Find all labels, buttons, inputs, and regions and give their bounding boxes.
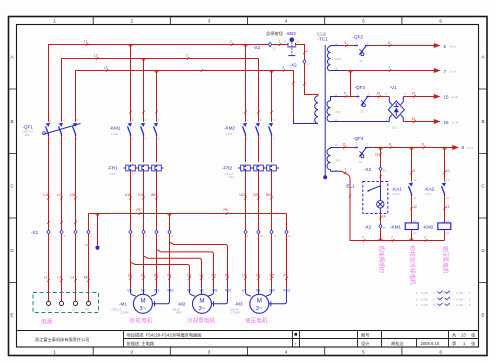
supply terminals box 电源 xyxy=(33,293,99,326)
svg-text:2-1-B: 2-1-B xyxy=(452,120,459,124)
label lighting branch xyxy=(378,246,386,274)
svg-text:B: B xyxy=(481,119,484,124)
svg-text:砂轮及冷却电机: 砂轮及冷却电机 xyxy=(409,246,417,286)
svg-text:L3: L3 xyxy=(71,275,75,279)
svg-text:L3: L3 xyxy=(72,307,75,311)
svg-text:9: 9 xyxy=(345,41,347,45)
svg-text:1-3-B: 1-3-B xyxy=(456,303,463,307)
svg-text:1-2-B: 1-2-B xyxy=(421,297,428,301)
svg-text:-KM2: -KM2 xyxy=(423,224,434,229)
svg-text:6: 6 xyxy=(439,350,442,355)
relay contact KA1 xyxy=(392,148,417,201)
wire lamp branch drop xyxy=(375,148,382,167)
svg-text:W3: W3 xyxy=(270,273,275,277)
svg-text:13: 13 xyxy=(413,178,416,182)
svg-text:2009.9.10: 2009.9.10 xyxy=(421,341,440,346)
svg-text:1-5-B: 1-5-B xyxy=(226,132,233,136)
svg-text:14: 14 xyxy=(446,196,449,200)
wire KM1 coil to bus 7 xyxy=(411,230,413,241)
svg-text:9: 9 xyxy=(413,169,415,173)
svg-text:L21: L21 xyxy=(57,193,63,197)
svg-text:21: 21 xyxy=(283,40,286,44)
secondary winding 220V xyxy=(327,46,330,71)
svg-text:2-1-B: 2-1-B xyxy=(452,95,459,99)
wire 36V return to control bus 7 xyxy=(331,167,445,242)
svg-text:U21: U21 xyxy=(240,193,246,197)
svg-text:L2: L2 xyxy=(94,54,98,58)
wire PE drop to X1-12 xyxy=(286,214,288,230)
svg-text:5A: 5A xyxy=(360,59,363,63)
svg-text:1-4-B: 1-4-B xyxy=(111,132,118,136)
svg-text:7: 7 xyxy=(391,236,393,240)
svg-text:8: 8 xyxy=(422,142,424,146)
svg-text:6: 6 xyxy=(439,19,442,24)
svg-text:13: 13 xyxy=(361,110,364,114)
terminal X2-21 xyxy=(290,59,311,67)
svg-text:2-1-C: 2-1-C xyxy=(467,146,474,150)
svg-text:-X1: -X1 xyxy=(31,230,39,235)
terminal X1 5,6,7,8 xyxy=(129,230,174,238)
svg-text:-M3: -M3 xyxy=(235,301,243,306)
wire line 5 xyxy=(369,41,456,49)
svg-text:PE: PE xyxy=(86,307,90,311)
wire junction fillets xyxy=(95,45,447,241)
circuit breaker QF2 xyxy=(353,34,369,62)
svg-text:90W: 90W xyxy=(176,310,182,314)
svg-text:7: 7 xyxy=(345,167,347,171)
wire drops to KM2 xyxy=(244,45,272,122)
svg-text:-KA1: -KA1 xyxy=(392,186,403,191)
wire SB3 to transformer primary xyxy=(296,45,318,96)
wire L3 to primary return xyxy=(292,71,318,124)
svg-text:8: 8 xyxy=(389,142,391,146)
svg-text:3: 3 xyxy=(208,350,211,355)
svg-text:机床照明灯: 机床照明灯 xyxy=(378,246,386,274)
svg-text:变压器: 变压器 xyxy=(317,31,327,36)
wire fixture to X2-20 xyxy=(379,214,385,225)
svg-text:项目描述: FS4228-FS4230等磨床电路图: 项目描述: FS4228-FS4230等磨床电路图 xyxy=(127,332,202,339)
wire FR1 to X1 (5,6,7) xyxy=(125,171,158,230)
wire KM2 coil to bus 7 xyxy=(444,230,446,241)
wire QF3 to V1 xyxy=(371,92,390,98)
contactor coil KM2 xyxy=(423,219,451,235)
svg-text:E: E xyxy=(10,313,13,318)
contactor coil KM1 xyxy=(390,219,418,235)
svg-text:L2: L2 xyxy=(57,275,61,279)
wire FR2 to X1 (9,10,11) xyxy=(240,171,273,230)
svg-text:共: 共 xyxy=(452,332,456,339)
wire 220V to QF2 xyxy=(331,41,354,47)
svg-text:1: 1 xyxy=(279,39,281,43)
svg-text:2: 2 xyxy=(131,19,134,24)
wire PE bus xyxy=(89,208,287,215)
terminal block X1 (1,2,3,4) xyxy=(31,230,92,238)
svg-text:W3: W3 xyxy=(270,289,275,293)
svg-text:1: 1 xyxy=(53,19,56,24)
svg-text:3: 3 xyxy=(208,19,211,24)
svg-text:W21: W21 xyxy=(266,193,273,197)
svg-text:2: 2 xyxy=(131,350,134,355)
svg-text:16: 16 xyxy=(444,120,450,125)
terminal X2-12 on L1 feed xyxy=(253,42,276,50)
svg-text:PE: PE xyxy=(224,208,228,212)
svg-text:V3: V3 xyxy=(256,273,260,277)
svg-text:-TC1: -TC1 xyxy=(318,37,329,42)
motor M1 xyxy=(111,294,153,324)
svg-text:0.75KW: 0.75KW xyxy=(231,310,241,314)
thermal relay FR1 xyxy=(108,161,164,176)
emergency stop button SB3 xyxy=(266,30,300,56)
svg-text:14: 14 xyxy=(382,214,386,218)
wire branch to M2 phase W xyxy=(157,250,217,289)
svg-text:9: 9 xyxy=(344,92,346,96)
svg-text:W11: W11 xyxy=(151,193,158,197)
svg-text:U2: U2 xyxy=(187,273,191,277)
svg-text:22: 22 xyxy=(297,40,300,44)
wire KM2 to FR2 xyxy=(246,136,272,162)
svg-text:7: 7 xyxy=(362,236,364,240)
svg-text:U1: U1 xyxy=(128,289,132,293)
circuit breaker QF1 xyxy=(23,118,81,140)
svg-text:-SB3: -SB3 xyxy=(286,31,297,36)
svg-text:12: 12 xyxy=(288,234,291,238)
svg-text:浙江富士泰机床有限责任公司: 浙江富士泰机床有限责任公司 xyxy=(35,336,89,343)
svg-text:7: 7 xyxy=(424,236,426,240)
machine light fixture EL1 (dashed enclosure) xyxy=(345,182,388,214)
svg-text:1-2-B: 1-2-B xyxy=(421,291,428,295)
svg-text:PE1: PE1 xyxy=(168,289,175,293)
wire junction 7 to 24V winding xyxy=(331,71,356,101)
terminal X2-20 xyxy=(364,224,386,230)
wire drops to KM1 xyxy=(129,44,157,121)
svg-text:1: 1 xyxy=(230,39,232,43)
svg-text:20A: 20A xyxy=(25,133,30,137)
svg-text:5: 5 xyxy=(444,44,447,49)
svg-text:5: 5 xyxy=(388,41,390,45)
svg-text:L11: L11 xyxy=(44,193,49,197)
svg-text:2-1-A: 2-1-A xyxy=(450,44,457,48)
wire branch to M2 phase U xyxy=(131,262,192,289)
wire line 7 xyxy=(331,66,457,74)
svg-text:设计: 设计 xyxy=(361,340,369,347)
svg-text:A1: A1 xyxy=(413,219,417,223)
svg-text:-KM1: -KM1 xyxy=(110,126,121,131)
svg-text:13: 13 xyxy=(412,92,416,96)
svg-text:36V: 36V xyxy=(336,159,341,163)
svg-text:-EL1: -EL1 xyxy=(345,183,355,188)
rectifier V1 xyxy=(386,85,407,129)
svg-text:第: 第 xyxy=(452,340,456,347)
lamp EL1 xyxy=(377,201,384,214)
wire QF1 to X1 terminals xyxy=(44,136,77,230)
svg-text:胡松达: 胡松达 xyxy=(391,340,404,347)
svg-text:U3: U3 xyxy=(243,273,247,277)
svg-text:10: 10 xyxy=(377,92,381,96)
wire branch to M2 phase V xyxy=(144,256,204,289)
thermal relay FR2 xyxy=(222,165,279,179)
svg-text:220V: 220V xyxy=(335,57,341,61)
relay contact KA2 xyxy=(424,148,450,201)
svg-text:L1: L1 xyxy=(46,307,49,311)
svg-text:总停按钮: 总停按钮 xyxy=(266,30,283,37)
wire M3 columns xyxy=(243,234,288,289)
svg-text:-X2: -X2 xyxy=(364,224,372,229)
svg-text:V11: V11 xyxy=(138,193,144,197)
KM2 auxiliary contact cross reference table xyxy=(445,291,471,308)
wire KA2 to KM2 coil xyxy=(443,196,449,223)
svg-text:5: 5 xyxy=(362,350,365,355)
label KM2 branch xyxy=(441,246,449,274)
svg-text:2.4A: 2.4A xyxy=(229,175,235,179)
wire 24V return to V1 xyxy=(331,121,390,123)
label KM1 branch xyxy=(409,246,417,286)
svg-text:2.2KW: 2.2KW xyxy=(121,310,130,314)
svg-text:3.5-5: 3.5-5 xyxy=(110,172,117,176)
svg-text:2: 2 xyxy=(306,49,308,53)
svg-text:-FR1: -FR1 xyxy=(108,166,119,171)
svg-text:E: E xyxy=(481,313,484,318)
wire L2 top bus (2) xyxy=(62,59,259,122)
svg-text:12: 12 xyxy=(272,46,275,50)
svg-text:-V1: -V1 xyxy=(390,85,398,90)
svg-text:V1: V1 xyxy=(141,273,145,277)
svg-text:-M2: -M2 xyxy=(178,301,186,306)
wire X1 to supply circles xyxy=(44,214,90,302)
wire M1 column PE xyxy=(168,234,172,289)
secondary winding 24V xyxy=(327,101,331,122)
svg-text:1.5-2.4: 1.5-2.4 xyxy=(225,172,234,176)
svg-text:2: 2 xyxy=(186,54,188,58)
svg-text:L31: L31 xyxy=(70,193,76,197)
svg-text:2-3-C: 2-3-C xyxy=(393,192,400,196)
svg-text:13: 13 xyxy=(446,205,450,209)
wire KM1 to FR1 xyxy=(131,136,157,162)
svg-text:PE: PE xyxy=(85,244,89,248)
wire line 15 xyxy=(403,92,458,100)
svg-text:13: 13 xyxy=(461,333,466,338)
svg-text:24V: 24V xyxy=(336,110,341,114)
wire line 16 xyxy=(403,117,458,125)
svg-text:PE: PE xyxy=(284,273,288,277)
svg-text:11: 11 xyxy=(274,234,277,238)
circuit breaker QF3 xyxy=(355,85,371,113)
svg-text:5: 5 xyxy=(362,19,365,24)
wire KA1 to KM1 coil xyxy=(410,196,417,223)
svg-text:-KA2: -KA2 xyxy=(424,186,435,191)
svg-text:A2: A2 xyxy=(413,231,417,235)
svg-text:2CZ: 2CZ xyxy=(392,125,397,129)
svg-text:冷却泵电机: 冷却泵电机 xyxy=(187,317,215,325)
svg-text:14: 14 xyxy=(413,196,416,200)
svg-text:B: B xyxy=(10,119,13,124)
svg-text:10: 10 xyxy=(260,234,263,238)
svg-text:-QF2: -QF2 xyxy=(353,34,364,39)
svg-text:液压泵电机: 液压泵电机 xyxy=(441,246,449,274)
svg-text:A1: A1 xyxy=(446,219,450,223)
svg-text:V21: V21 xyxy=(253,193,259,197)
motor M2 leads xyxy=(187,289,232,307)
switch inside fixture xyxy=(367,182,380,201)
svg-text:4: 4 xyxy=(285,350,288,355)
primary winding xyxy=(315,96,318,124)
svg-text:13: 13 xyxy=(446,178,449,182)
svg-text:12: 12 xyxy=(413,205,417,209)
svg-text:W2: W2 xyxy=(211,273,216,277)
svg-text:-FR2: -FR2 xyxy=(222,166,233,171)
wire M1 column W xyxy=(154,234,159,289)
svg-text:U11: U11 xyxy=(125,193,131,197)
svg-text:10: 10 xyxy=(446,169,450,173)
wire L1 top bus (1) xyxy=(49,45,271,122)
svg-text:7: 7 xyxy=(444,69,447,74)
svg-text:-X2: -X2 xyxy=(290,63,298,68)
wire 36V to QF4 xyxy=(331,142,354,149)
svg-text:2-4-C: 2-4-C xyxy=(425,192,432,196)
svg-text:PE: PE xyxy=(168,273,172,277)
contactor KM1 main contacts xyxy=(110,118,160,140)
KM1 auxiliary contact cross reference table xyxy=(416,291,443,308)
svg-text:PE: PE xyxy=(84,275,88,279)
svg-text:L1: L1 xyxy=(84,39,88,43)
svg-text:21: 21 xyxy=(307,62,310,66)
svg-text:-QF1: -QF1 xyxy=(23,125,34,130)
svg-text:L1: L1 xyxy=(44,275,48,279)
wire labels on buses xyxy=(84,39,285,72)
svg-text:3: 3 xyxy=(282,66,284,70)
svg-text:15: 15 xyxy=(444,95,450,100)
transformer TC1 xyxy=(313,31,341,179)
svg-text:20: 20 xyxy=(383,226,386,230)
motor M3 xyxy=(230,294,269,324)
wire X2-20 to bus 7 xyxy=(380,228,382,240)
svg-text:7: 7 xyxy=(388,66,390,70)
svg-text:8: 8 xyxy=(462,145,465,150)
svg-text:4: 4 xyxy=(285,19,288,24)
motor M1 leads xyxy=(128,289,175,307)
svg-text:张描述: 主电路: 张描述: 主电路 xyxy=(127,340,155,347)
svg-text:11: 11 xyxy=(343,142,347,146)
svg-text:-KM1: -KM1 xyxy=(390,224,401,229)
svg-text:-M1: -M1 xyxy=(119,301,127,306)
svg-text:L2: L2 xyxy=(59,307,62,311)
svg-text:液压电机: 液压电机 xyxy=(245,317,268,325)
svg-text:-X2: -X2 xyxy=(253,45,261,50)
svg-text:V2: V2 xyxy=(200,273,204,277)
svg-text:-X2: -X2 xyxy=(364,167,372,172)
motor M3 leads xyxy=(242,289,290,307)
core xyxy=(324,45,326,175)
wire line 8 xyxy=(369,142,473,150)
svg-text:2-1-A: 2-1-A xyxy=(450,69,457,73)
contactor KM2 main contacts xyxy=(224,118,275,140)
wire L3 top bus (3) xyxy=(76,71,294,122)
svg-text:1-2-B: 1-2-B xyxy=(421,303,428,307)
motor M2 xyxy=(173,294,216,324)
svg-text:-KM2: -KM2 xyxy=(224,126,235,131)
wire X2 to SB3 xyxy=(272,39,288,45)
svg-text:L3: L3 xyxy=(104,66,108,70)
svg-text:U1: U1 xyxy=(128,273,132,277)
svg-text:电源: 电源 xyxy=(41,318,53,326)
svg-text:A2: A2 xyxy=(446,231,450,235)
svg-text:13: 13 xyxy=(375,152,379,156)
svg-text:13: 13 xyxy=(335,143,338,147)
svg-text:-QF3: -QF3 xyxy=(355,85,366,90)
svg-text:13: 13 xyxy=(383,168,386,172)
terminal X1 9,10,11,12 xyxy=(244,230,291,238)
svg-text:PE: PE xyxy=(137,208,141,212)
svg-text:W1: W1 xyxy=(154,273,159,277)
wire branch to M2 PE xyxy=(170,242,230,289)
wire M1 column U xyxy=(128,234,132,289)
terminal X2-13 xyxy=(364,167,386,173)
svg-text:砂轮电机: 砂轮电机 xyxy=(130,317,153,325)
svg-text:1: 1 xyxy=(53,350,56,355)
PE earth point xyxy=(85,214,100,250)
svg-text:-QF4: -QF4 xyxy=(353,136,364,141)
wire PE drop to X1-8 xyxy=(169,214,171,230)
svg-text:PE2: PE2 xyxy=(225,289,232,293)
svg-text:14: 14 xyxy=(412,117,416,121)
secondary winding 36V xyxy=(327,148,331,169)
svg-text:1-3-B: 1-3-B xyxy=(456,291,463,295)
wire X2-13 to light fixture xyxy=(379,171,381,182)
wire M1 column V xyxy=(141,234,145,289)
svg-text:5A: 5A xyxy=(359,160,362,164)
circuit breaker QF4 xyxy=(353,136,369,164)
svg-text:1-3-B: 1-3-B xyxy=(456,297,463,301)
svg-text:PE: PE xyxy=(225,273,229,277)
